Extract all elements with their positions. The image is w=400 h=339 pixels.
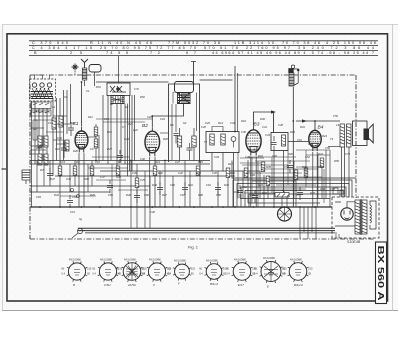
resistor RB14 bbox=[135, 178, 139, 188]
wire horiz RH4 bbox=[296, 166, 322, 168]
resistor R6 bbox=[52, 118, 56, 129]
wire vertical M7 bbox=[98, 135, 100, 161]
wire mesh V5 bbox=[287, 150, 289, 185]
wire mesh H4 bbox=[262, 168, 318, 170]
wire vertical M4 bbox=[149, 176, 151, 228]
chassis boundary top bbox=[30, 74, 356, 76]
oscillator stub bbox=[191, 62, 196, 85]
capacitor CB3 bbox=[297, 187, 303, 200]
wire vertical M24 bbox=[247, 160, 249, 203]
signal arrow 2 bbox=[271, 110, 276, 113]
tube B3 bbox=[246, 126, 261, 156]
T2 trimmer bbox=[231, 137, 236, 142]
wire bundle 1 bbox=[233, 180, 352, 207]
capacitor C11 bbox=[68, 122, 74, 136]
capacitor C14 bbox=[36, 146, 42, 154]
junction J10 bbox=[211, 206, 213, 208]
resistor R5 bbox=[59, 116, 63, 127]
terminal circle a bbox=[71, 189, 74, 192]
capacitor C16 bbox=[61, 140, 67, 158]
wire vertical L17 bbox=[124, 104, 126, 165]
socket i (B/4x/-0) bbox=[288, 261, 309, 282]
resistor R2 bbox=[44, 136, 48, 147]
bus heater bbox=[100, 170, 260, 172]
capacitor CB2 bbox=[252, 190, 258, 203]
aerial coil links bbox=[35, 75, 50, 79]
junction J13 bbox=[253, 206, 255, 208]
junction J14 bbox=[273, 206, 275, 208]
capacitor CB8 bbox=[107, 180, 113, 193]
wire mesh H8 bbox=[276, 184, 316, 186]
wire vertical M25 bbox=[259, 171, 261, 199]
capacitor C32 bbox=[174, 134, 179, 144]
wire vertical M9 bbox=[87, 164, 89, 192]
wire mesh V1 bbox=[237, 152, 239, 199]
terminal circle b bbox=[77, 195, 80, 198]
mains antenna capacitor C2 bbox=[289, 65, 299, 86]
junction K5 bbox=[314, 120, 316, 122]
junction J3 bbox=[81, 206, 83, 208]
wire horiz H10 bbox=[53, 139, 63, 141]
wire horiz H1 bbox=[30, 111, 50, 113]
tube B4 bbox=[309, 126, 321, 151]
wire osc inner 1 bbox=[173, 93, 175, 104]
loudspeaker magnet bbox=[364, 129, 370, 141]
chassis boundary left bbox=[29, 75, 31, 239]
wire antenna feed bbox=[85, 72, 95, 86]
wire vertical L15 bbox=[116, 104, 118, 172]
junction J17 bbox=[314, 206, 316, 208]
resistor R1 bbox=[38, 136, 42, 147]
RF coil unit S2 box bbox=[107, 83, 130, 96]
wire mesh V7 bbox=[305, 150, 307, 187]
wire power leads bbox=[335, 201, 376, 229]
wire vertical M2 bbox=[136, 164, 138, 228]
capacitor CB11 bbox=[215, 182, 221, 195]
T2 coil b bbox=[221, 134, 225, 145]
resistor RB10 bbox=[294, 170, 298, 180]
capacitor CB6 bbox=[47, 168, 53, 181]
wire grid link 3 bbox=[103, 121, 145, 123]
wire mesh V8 bbox=[317, 155, 319, 199]
socket b (C/5H) bbox=[98, 261, 118, 281]
junction J7 bbox=[164, 206, 166, 208]
mains stub bbox=[234, 66, 236, 132]
resistor R3 bbox=[38, 154, 42, 165]
wire Z4 drops bbox=[274, 151, 284, 208]
border frame bbox=[7, 34, 388, 301]
bus grid return bbox=[55, 175, 235, 177]
paper top edge bbox=[2, 24, 398, 26]
mains cord bbox=[336, 232, 339, 238]
ground bus bbox=[30, 206, 332, 208]
wire horiz RH5 bbox=[240, 162, 262, 164]
wire mesh H12 bbox=[88, 167, 128, 169]
resistor RB2 bbox=[73, 166, 77, 176]
wire horiz H7 bbox=[30, 145, 38, 147]
socket h interior bbox=[264, 262, 278, 281]
junction K2 bbox=[151, 115, 153, 117]
capacitor CB4 bbox=[117, 150, 123, 163]
junction J12 bbox=[234, 206, 236, 208]
S2 blob hatch bbox=[111, 96, 124, 104]
wire horiz H8 bbox=[30, 149, 46, 151]
resistor RB1 bbox=[58, 166, 62, 176]
wire vertical L8 bbox=[59, 98, 61, 176]
resistor R7 bbox=[65, 140, 69, 151]
bus AVC 1 bbox=[30, 160, 210, 162]
wave switch SK1 bbox=[31, 102, 51, 109]
junction J2 bbox=[59, 206, 61, 208]
output transformer T3 secondary bbox=[347, 124, 352, 147]
wire bundle 2 bbox=[237, 184, 349, 208]
wire R8 leads bbox=[193, 128, 195, 161]
bus left lower 2 bbox=[30, 191, 110, 193]
wire bundle long bbox=[232, 161, 356, 179]
coupling box Z4 bbox=[271, 133, 288, 151]
resistor RB13 bbox=[90, 166, 94, 176]
oscillator shield box bbox=[169, 84, 200, 162]
wire horiz H2 bbox=[53, 115, 67, 117]
wire R7 leads bbox=[179, 128, 181, 161]
resistor RB3 bbox=[116, 166, 120, 176]
wire drop bundle right bbox=[300, 207, 316, 239]
coil L1 core bbox=[32, 88, 53, 98]
wire mesh H15 bbox=[60, 195, 96, 197]
junction J8 bbox=[179, 206, 181, 208]
wire vertical L18 bbox=[127, 104, 129, 177]
wire mesh H1 bbox=[248, 156, 296, 158]
socket c interior bbox=[126, 263, 138, 280]
resistor RB4 bbox=[153, 166, 157, 176]
junction K4 bbox=[292, 120, 294, 122]
wire speaker leads bbox=[342, 147, 350, 197]
wire vertical M16 bbox=[159, 171, 161, 207]
dial scale line 3 bbox=[85, 232, 335, 234]
resistor R8 bbox=[192, 136, 196, 147]
junction J16 bbox=[299, 206, 301, 208]
earth switch cross bbox=[72, 64, 79, 71]
resistor RB11 bbox=[304, 168, 308, 178]
wire vertical L14 bbox=[110, 104, 112, 161]
resistor RB8 bbox=[261, 162, 265, 172]
wire mesh V10 bbox=[111, 164, 113, 207]
bus right mid 1 bbox=[240, 198, 330, 200]
wire B2 screen bbox=[160, 132, 169, 134]
trimmer C4 bbox=[40, 83, 44, 87]
wire bundle 5 bbox=[249, 194, 340, 207]
wire horiz H9 bbox=[30, 153, 38, 155]
wire vertical L1 bbox=[31, 101, 33, 207]
wire mesh V11 bbox=[119, 171, 121, 207]
S2 core blob bbox=[111, 96, 124, 104]
wire mesh H9 bbox=[260, 188, 306, 190]
wire B1 plate bbox=[81, 82, 83, 127]
dial scale line 1 bbox=[78, 227, 335, 229]
coil former L3 bbox=[33, 120, 37, 140]
wire vertical M29 bbox=[321, 167, 323, 199]
wire horiz RH3 bbox=[306, 154, 330, 156]
bus right mid 2 bbox=[248, 202, 320, 204]
table rule 1 bbox=[29, 40, 378, 42]
loudspeaker frame bbox=[353, 121, 368, 146]
wire vertical M21 bbox=[217, 171, 219, 207]
dial cord end bbox=[72, 233, 78, 238]
capacitor C30 bbox=[187, 143, 193, 160]
wire B+ rail left bbox=[96, 81, 169, 83]
wire mains antenna drop bbox=[292, 87, 294, 207]
wire vertical L2 bbox=[34, 101, 36, 164]
socket d (C) bbox=[147, 261, 167, 281]
resistor R19 bbox=[282, 135, 286, 146]
junction J1 bbox=[39, 206, 41, 208]
wire vertical L10 bbox=[66, 90, 68, 134]
resistor RB12 bbox=[320, 158, 324, 168]
wire vertical L9 bbox=[63, 90, 65, 161]
wire B2 cathode bbox=[150, 157, 155, 207]
output transformer T3 primary bbox=[340, 124, 345, 147]
wire mesh H6 bbox=[268, 176, 322, 178]
wire vertical M13 bbox=[49, 161, 51, 187]
junction J15 bbox=[284, 206, 286, 208]
wire vertical M12 bbox=[59, 176, 61, 207]
wire vertical L6 bbox=[52, 98, 54, 176]
mains stub 2 bbox=[237, 73, 239, 132]
resistor RB5 bbox=[196, 166, 200, 176]
wire B1 cathode bbox=[79, 153, 84, 207]
wire mesh H2 bbox=[255, 160, 310, 162]
wire vertical L16 bbox=[120, 104, 122, 161]
wire vertical M8 bbox=[91, 161, 93, 187]
socket h (E) bbox=[260, 260, 283, 283]
wire mesh V2 bbox=[251, 157, 253, 203]
antenna A1 bbox=[81, 59, 88, 68]
paper left edge bbox=[2, 25, 4, 311]
wire vertical L3 bbox=[38, 108, 40, 161]
wire vertical M14 bbox=[43, 164, 45, 186]
wire vertical M22 bbox=[227, 176, 229, 207]
wire B+ rail right bbox=[200, 79, 233, 81]
wire horiz H4 bbox=[57, 123, 70, 125]
table rule 4 bbox=[29, 54, 378, 56]
wave switch SK2 bbox=[31, 110, 51, 116]
S2 switch contacts bbox=[110, 86, 126, 92]
wire vertical L7 bbox=[56, 98, 58, 161]
wire vertical L11 bbox=[70, 84, 72, 124]
chassis boundary right bbox=[355, 75, 357, 198]
wire mesh H13 bbox=[96, 179, 126, 181]
wire pot drops bbox=[282, 197, 287, 207]
wire mesh V3 bbox=[257, 161, 259, 207]
resistor RB6 bbox=[226, 168, 230, 178]
wire grid link 2 bbox=[96, 118, 152, 120]
wire horiz RH2 bbox=[296, 149, 330, 151]
junction K9 bbox=[95, 160, 97, 162]
wire horiz H11 bbox=[56, 143, 67, 145]
wire B1 screen bbox=[88, 136, 96, 138]
oscillator unit box bbox=[175, 82, 194, 93]
tuning indicator B6 bbox=[278, 207, 292, 221]
junction J6 bbox=[151, 206, 153, 208]
wire vertical L20 bbox=[131, 95, 133, 171]
bus left lower 1 bbox=[30, 185, 150, 187]
aerial coil unit S1 dashed box bbox=[30, 79, 56, 101]
chassis boundary bottom bbox=[30, 238, 375, 240]
wire vertical M19 bbox=[189, 171, 191, 207]
wire osc interior 3 bbox=[196, 93, 198, 132]
junction J11 bbox=[222, 206, 224, 208]
junction J9 bbox=[193, 206, 195, 208]
wire B3 cathode bbox=[251, 157, 256, 208]
heater winding L6 bbox=[370, 205, 372, 223]
wire vertical M26 bbox=[263, 175, 265, 207]
mains transformer T4 secondary bbox=[362, 200, 367, 234]
wire vertical M31 bbox=[329, 150, 331, 207]
wire mesh H10 bbox=[244, 192, 284, 194]
junction K6 bbox=[130, 160, 132, 162]
paper right edge bbox=[392, 25, 394, 311]
dial pulley bbox=[77, 228, 82, 233]
wire B4 plate bbox=[314, 121, 316, 127]
trimmer C3 bbox=[32, 83, 36, 87]
wire mesh H3 bbox=[242, 164, 288, 166]
oscillator switch S3 bbox=[178, 93, 191, 104]
signal arrow bbox=[302, 119, 307, 122]
trimmer C5 bbox=[47, 83, 51, 87]
wire vertical L21 bbox=[134, 95, 136, 161]
resistor RB7 bbox=[244, 168, 248, 178]
socket g (E/17) bbox=[232, 261, 253, 282]
wire vertical L19 bbox=[129, 95, 131, 171]
tube B2 bbox=[145, 127, 160, 156]
wire B4 cathode bbox=[313, 152, 317, 207]
wire B4 plate rail bbox=[296, 120, 340, 122]
coil L1 bbox=[31, 92, 53, 99]
T2 coil a bbox=[210, 134, 214, 145]
wire S2 feed bbox=[118, 56, 120, 83]
wire vertical M27 bbox=[267, 185, 269, 199]
junction K3 bbox=[234, 131, 236, 133]
capacitor CB12 bbox=[287, 160, 293, 173]
wire vertical M11 bbox=[69, 164, 71, 192]
dial scale line 2 bbox=[78, 230, 335, 232]
wire B4 grid link bbox=[288, 141, 309, 143]
wire vertical M20 bbox=[199, 161, 201, 208]
resistor R10 bbox=[94, 139, 98, 148]
socket f (B/4x-0) bbox=[205, 262, 224, 281]
wire vertical M3 bbox=[144, 171, 146, 228]
rectifier B5 bbox=[341, 208, 353, 220]
wire osc interior 2 bbox=[175, 104, 177, 132]
socket c (2A/5H) bbox=[122, 261, 143, 282]
pot arrow bbox=[282, 190, 285, 193]
paper bottom edge bbox=[2, 310, 398, 312]
resistor R4 bbox=[44, 154, 48, 165]
wire vertical L13 bbox=[107, 95, 109, 164]
bus AVC 2 bbox=[30, 163, 210, 165]
table rule 3 bbox=[29, 49, 378, 51]
wire mesh H14 bbox=[118, 189, 148, 191]
wire mesh H11 bbox=[92, 156, 130, 158]
wire vertical M17 bbox=[172, 176, 174, 207]
wire vertical M15 bbox=[36, 161, 38, 193]
capacitor C57 bbox=[272, 136, 277, 150]
wire vertical M10 bbox=[74, 161, 76, 187]
capacitor CB1 bbox=[237, 185, 243, 198]
wire vertical M1 bbox=[130, 161, 132, 229]
wire speaker top bbox=[328, 146, 340, 148]
junction K7 bbox=[164, 160, 166, 162]
wire vertical M23 bbox=[242, 171, 244, 199]
wire B5 top bbox=[347, 202, 355, 208]
wire vertical L4 bbox=[42, 108, 44, 161]
title block box bbox=[376, 242, 387, 304]
wire vertical M5 bbox=[164, 161, 166, 208]
frame tick mark bbox=[2, 168, 7, 170]
socket e (F) bbox=[173, 262, 191, 280]
table rule 2 bbox=[29, 44, 378, 46]
capacitor CB10 bbox=[182, 182, 188, 195]
wire bundle 4 bbox=[245, 191, 343, 208]
pickup terminal PU bbox=[22, 170, 30, 184]
junction J5 bbox=[130, 206, 132, 208]
tube B1 bbox=[75, 127, 88, 153]
power-unit dashed box bbox=[332, 197, 379, 238]
potentiometer R21 bbox=[275, 193, 289, 198]
wire osc interior 1 bbox=[171, 104, 173, 161]
capacitor CB7 bbox=[67, 195, 73, 208]
wire vertical M30 bbox=[325, 150, 327, 199]
wire mesh H5 bbox=[246, 172, 302, 174]
wire mesh V4 bbox=[271, 157, 273, 193]
capacitor CB9 bbox=[157, 182, 163, 195]
wire mesh H7 bbox=[252, 180, 296, 182]
earth switch dashes bbox=[74, 71, 76, 76]
junction K8 bbox=[59, 175, 61, 177]
T4 core bbox=[360, 199, 363, 235]
wire vertical L12 bbox=[102, 95, 104, 161]
junction K1 bbox=[81, 81, 83, 83]
IF transformer T2 box bbox=[206, 132, 239, 153]
mains transformer T4 primary bbox=[355, 200, 360, 234]
socket a (B) bbox=[67, 261, 87, 281]
wire vertical L5 bbox=[46, 108, 48, 161]
lightning arrester F1 bbox=[82, 68, 87, 80]
antenna terminal box bbox=[89, 65, 101, 73]
loudspeaker cone bbox=[369, 124, 373, 143]
junction J4 bbox=[99, 206, 101, 208]
resistor RB9 bbox=[266, 176, 270, 186]
wire vertical M28 bbox=[295, 179, 297, 207]
resistor R7 bbox=[177, 136, 181, 147]
wire horiz H5 bbox=[30, 127, 44, 129]
T2 links bbox=[212, 127, 234, 148]
voltage selector bbox=[333, 188, 344, 194]
wire mesh V6 bbox=[293, 161, 295, 199]
resistor R9 bbox=[94, 127, 98, 136]
wire vertical M6 bbox=[95, 124, 97, 161]
wire mesh V9 bbox=[323, 169, 325, 203]
wire osc to B2 bbox=[152, 104, 183, 128]
wire T2 drops bbox=[212, 153, 234, 208]
wire B3 plate bbox=[254, 112, 274, 133]
capacitor CB5 bbox=[134, 190, 140, 203]
wire horiz RH1 bbox=[240, 157, 264, 159]
wire bundle 3 bbox=[241, 187, 346, 207]
wire horiz H6 bbox=[46, 131, 63, 133]
wire horiz H3 bbox=[35, 119, 55, 121]
wire vertical M18 bbox=[184, 161, 186, 208]
